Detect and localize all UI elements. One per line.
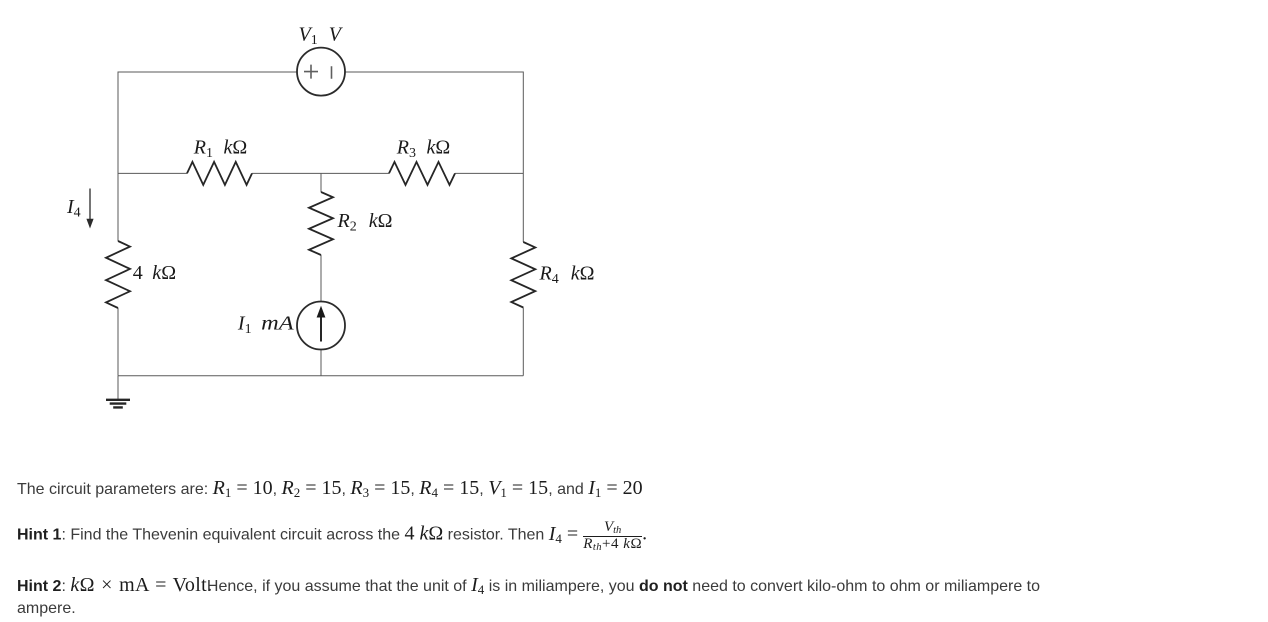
svg-text:R1kΩ: R1kΩ — [193, 136, 247, 161]
svg-text:R4kΩ: R4kΩ — [539, 263, 595, 288]
svg-text:I1: I1 — [237, 312, 252, 337]
svg-text:4kΩ: 4kΩ — [133, 262, 176, 284]
svg-text:R3kΩ: R3kΩ — [396, 136, 450, 161]
svg-text:mA: mA — [261, 312, 294, 334]
svg-text:I4: I4 — [66, 196, 81, 221]
svg-text:V1V: V1V — [299, 24, 344, 49]
svg-text:R2kΩ: R2kΩ — [337, 210, 393, 235]
